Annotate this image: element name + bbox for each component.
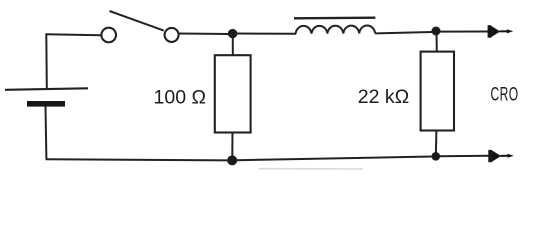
node B (junction) bbox=[227, 155, 237, 165]
wire: node A down to R1 bbox=[232, 36, 234, 56]
top output arrow (to CRO) bbox=[488, 25, 514, 38]
wire: node D to bottom output arrow bbox=[439, 155, 490, 157]
switch S1 left contact bbox=[101, 28, 116, 43]
wire: battery negative lead down bbox=[45, 107, 48, 160]
node C (junction) bbox=[432, 27, 441, 36]
wire: bottom left (corner to node B) bbox=[46, 159, 229, 160]
switch S1 right contact bbox=[165, 28, 179, 42]
wire: node B to node D bbox=[236, 157, 432, 161]
wire: node C down to R2 bbox=[436, 33, 438, 52]
inductor L1 winding (5 humps) bbox=[296, 26, 375, 34]
wire: R1 down to node B bbox=[231, 133, 233, 158]
wire: inductor to node C bbox=[375, 32, 432, 33]
resistor R2 body bbox=[421, 52, 454, 131]
inductor L1 core bar bbox=[294, 17, 375, 20]
wire: node A to inductor bbox=[236, 33, 296, 35]
wire: battery positive lead up bbox=[45, 34, 48, 89]
scan smudge artifact under bottom wire bbox=[259, 168, 363, 170]
wire: switch to node A bbox=[179, 33, 229, 36]
svg-text:CRO: CRO bbox=[491, 83, 519, 105]
node D (junction) bbox=[432, 152, 441, 161]
switch S1 blade (open) bbox=[110, 11, 164, 31]
wire: node C to top output arrow bbox=[439, 31, 489, 33]
bottom output arrow (to CRO) bbox=[488, 150, 514, 162]
wire: top left horizontal bbox=[46, 34, 102, 35]
node A (junction) bbox=[228, 29, 237, 38]
battery V1 top plate (long) bbox=[5, 88, 88, 90]
svg-text:100 Ω: 100 Ω bbox=[154, 87, 207, 109]
svg-text:22 kΩ: 22 kΩ bbox=[358, 86, 409, 108]
resistor R1 body bbox=[215, 55, 251, 132]
wire: R2 down to node D bbox=[435, 131, 438, 154]
battery V1 bottom plate (short thick) bbox=[27, 101, 65, 107]
